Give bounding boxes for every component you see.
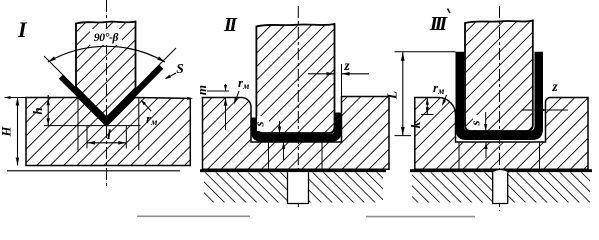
dimension m: [207, 90, 229, 92]
base plate III: [412, 172, 590, 202]
scan artifact line right: [366, 216, 475, 218]
die block I: [26, 98, 190, 166]
groove wall extension left I: [77, 98, 79, 152]
svg-text:s: s: [468, 120, 483, 126]
svg-text:z: z: [551, 79, 558, 94]
svg-text:I: I: [17, 17, 28, 42]
die block III: [415, 98, 588, 170]
ejector pad seam left III: [458, 142, 460, 169]
surface tick right I: [187, 97, 193, 100]
sheet metal II: [251, 113, 342, 142]
dimension z II: [341, 64, 343, 97]
label s II: [257, 116, 269, 131]
sheet metal I: [59, 65, 164, 127]
svg-text:90°-β: 90°-β: [94, 32, 119, 44]
svg-text:s: s: [252, 121, 267, 127]
svg-text:h: h: [30, 107, 45, 114]
svg-text:H: H: [0, 125, 14, 137]
label 90-beta: [90, 29, 122, 45]
centerline figure I: [106, 0, 108, 188]
punch III: [465, 21, 533, 132]
ejector pad seam right III: [539, 142, 541, 169]
dimension l extension lines: [86, 126, 88, 149]
angle arc I: [48, 46, 165, 62]
dimension l line: [87, 142, 126, 144]
base line I: [7, 170, 180, 172]
die block II: [203, 97, 390, 170]
label s III: [473, 115, 485, 130]
ejector pad seam right II: [321, 142, 323, 169]
centerline figure II: [297, 6, 299, 210]
dimension L extension bottom: [395, 135, 412, 137]
svg-text:l: l: [107, 128, 111, 143]
dimension L extension top: [395, 51, 456, 53]
dimension k: [421, 114, 434, 116]
scan artifact line left: [137, 215, 250, 217]
groove wall extension right I: [138, 98, 140, 150]
dimension z III: [522, 109, 534, 111]
svg-text:S: S: [176, 61, 184, 76]
svg-text:L: L: [385, 91, 400, 100]
svg-text:z: z: [343, 58, 350, 73]
dimension H line: [17, 98, 19, 166]
base plate II: [204, 172, 383, 202]
centerline figure III: [499, 6, 501, 211]
svg-text:II: II: [223, 14, 238, 36]
angle extension line left I: [44, 56, 66, 78]
apex reference line I: [44, 125, 141, 127]
svg-text:rм: rм: [238, 75, 249, 91]
ejector pin II: [288, 172, 309, 203]
dimension H extension top: [5, 97, 77, 99]
ejector pad seam left II: [268, 142, 270, 169]
ejector pin III: [493, 172, 508, 203]
svg-text:III: III: [429, 13, 449, 35]
bolster line II: [200, 169, 386, 172]
dimension L line: [402, 52, 404, 135]
dimension h line: [47, 95, 49, 125]
punch II: [256, 24, 334, 133]
svg-text:rм: rм: [433, 80, 444, 96]
sheet metal III: [456, 52, 544, 140]
svg-text:m: m: [194, 85, 209, 95]
punch I: [76, 22, 136, 118]
bolster line III: [410, 169, 592, 172]
svg-text:k: k: [408, 121, 423, 128]
angle extension line right I: [150, 48, 176, 74]
